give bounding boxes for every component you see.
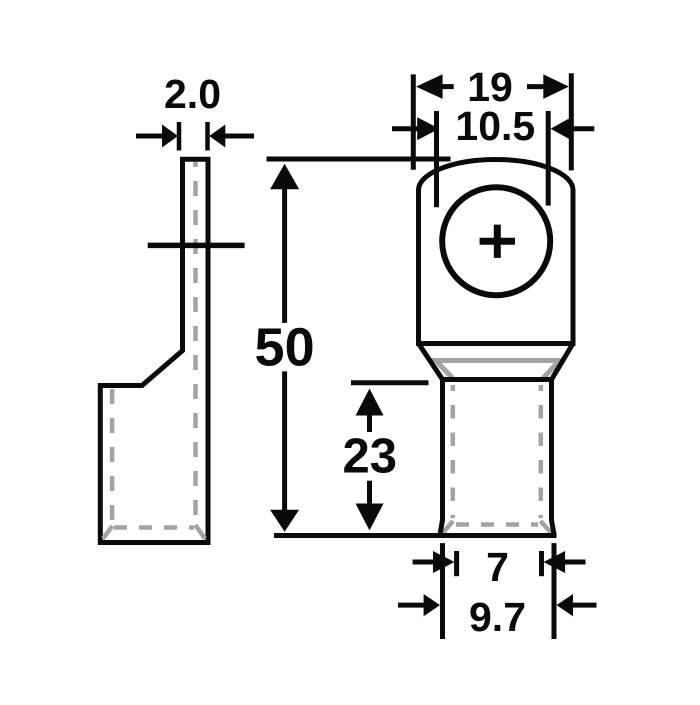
dimension 9.7 right extension line: [552, 543, 557, 639]
dimension 23 lower line and down arrow: [367, 481, 372, 506]
svg-text:2.0: 2.0: [164, 71, 221, 117]
dimension 19 left arrow: [441, 84, 454, 89]
dimension 7 left arrow: [413, 560, 436, 565]
front view barrel right hidden line (gray dashed): [539, 385, 544, 518]
dimension 10.5 right arrow: [569, 126, 594, 131]
svg-text:7: 7: [486, 544, 509, 590]
dimension 50 lower line and down arrow: [282, 371, 287, 511]
svg-text:50: 50: [255, 318, 315, 378]
front view flare gray inner outline: [436, 361, 560, 379]
front view barrel right wall: [552, 380, 555, 536]
dimension 7 right arrow: [562, 560, 586, 565]
svg-text:9.7: 9.7: [469, 594, 526, 640]
dimension 2.0 left arrow: [136, 134, 164, 139]
front view hole center cross: [480, 225, 515, 258]
dimension 19 right arrow: [527, 84, 544, 89]
dimension 7 left tick: [454, 551, 459, 576]
dimension 10.5 left arrow: [392, 126, 419, 131]
dimension 50 upper line and up arrow: [282, 187, 287, 323]
dimension 19 right extension line: [569, 73, 574, 170]
side view outline: [100, 159, 208, 542]
front view barrel left hidden line (gray dashed): [451, 385, 456, 518]
dimension 9.7 left extension line: [440, 543, 445, 639]
dimension 50 top extension line: [267, 157, 451, 162]
front view bore flare corner left (gray): [442, 521, 454, 535]
front view bore flare corner right (gray): [541, 521, 554, 536]
side view bore bottom hidden line (gray dashed): [114, 525, 194, 530]
dimension 23 upper line and up arrow: [367, 413, 372, 432]
svg-text:10.5: 10.5: [455, 103, 535, 149]
front view dome outline: [419, 159, 574, 343]
dimension 2.0 left tick: [177, 122, 182, 151]
front view barrel shoulder line: [443, 377, 552, 382]
dimension 7 right tick: [539, 551, 544, 576]
dimension 9.7 right arrow: [571, 603, 597, 608]
side view hole center mark: [148, 243, 245, 249]
dimension 23 top extension line: [351, 380, 429, 385]
side view left bore hidden line (gray dashed): [110, 389, 115, 524]
dimension 10.5 right extension line: [546, 111, 551, 206]
dimension 19 left extension line: [411, 74, 416, 169]
svg-text:23: 23: [342, 430, 397, 484]
front view bolt hole circle: [442, 187, 550, 295]
side view bore flare corner left (gray): [103, 526, 112, 539]
front view flare outer left: [419, 344, 443, 380]
front view bore bottom hidden line (gray dashed): [456, 522, 538, 527]
dimension 10.5 left extension line: [434, 111, 439, 207]
dimension 2.0 right arrow: [224, 134, 254, 139]
side view hidden centerline (gray dashed): [193, 162, 198, 521]
side view bore flare corner right (gray): [195, 525, 205, 539]
dimension 2.0 right tick: [205, 122, 210, 151]
front view flare outer right: [552, 344, 574, 380]
front view barrel left wall: [440, 380, 443, 536]
bottom datum line (50 extension / barrel bottom): [274, 533, 557, 538]
dimension 9.7 left arrow: [398, 603, 426, 608]
